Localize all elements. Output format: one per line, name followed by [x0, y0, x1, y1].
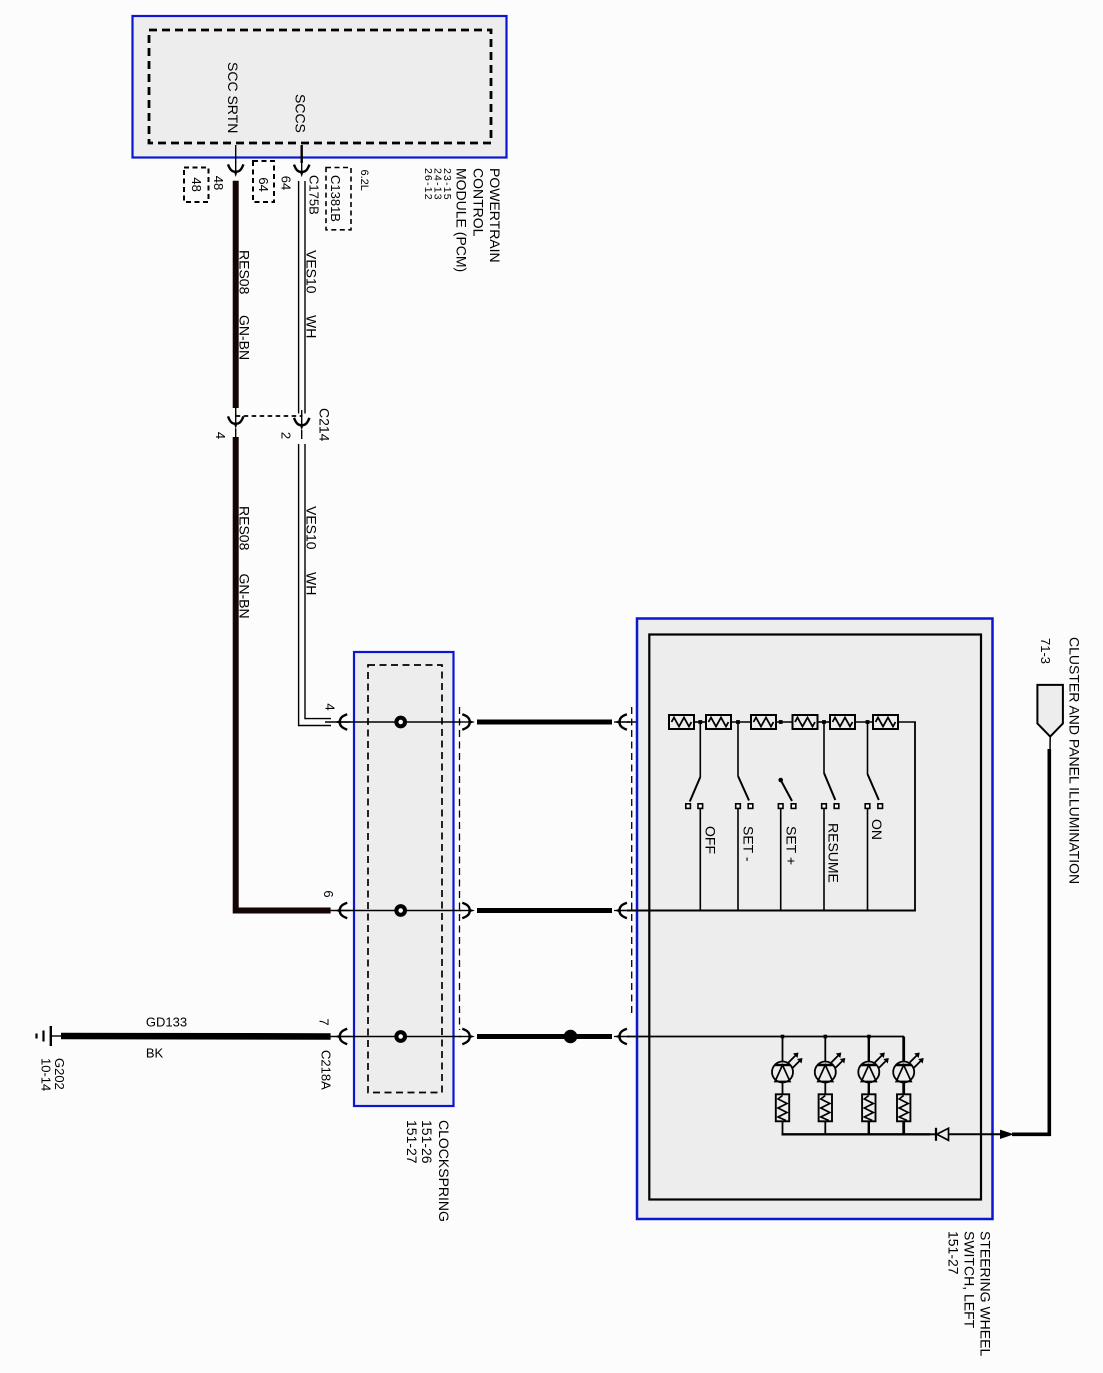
svg-text:BK: BK [146, 1046, 164, 1061]
svg-text:RESUME: RESUME [825, 823, 841, 883]
harness dashed line right [631, 707, 633, 1013]
clockspring pin 6 terminal circle [396, 906, 405, 915]
clockspring pin 7 terminal circle [396, 1032, 405, 1041]
switch OFF [686, 722, 719, 911]
LED resistor R9 [862, 1094, 875, 1134]
resistor R3 [751, 715, 776, 729]
harness dashed line left [459, 707, 461, 1030]
svg-text:SET +: SET + [783, 826, 799, 865]
svg-text:POWERTRAIN: POWERTRAIN [487, 168, 503, 263]
svg-text:CLUSTER AND PANEL ILLUMINATION: CLUSTER AND PANEL ILLUMINATION [1066, 637, 1082, 884]
steering wheel switch box [637, 619, 993, 1220]
LED resistor R10 [897, 1094, 910, 1134]
svg-text:48: 48 [211, 176, 226, 190]
pin 64 connector stem and bow at PCM [294, 145, 309, 177]
LED resistor R7 [776, 1094, 789, 1134]
switch SET- [736, 722, 757, 911]
resistor ladder wire row [694, 720, 916, 724]
svg-text:151-27: 151-27 [404, 1120, 420, 1164]
resistor R6 [873, 715, 898, 729]
PCM module box (POWERTRAIN CONTROL MODULE) [133, 16, 507, 158]
connector label C175B [307, 175, 322, 215]
svg-text:STEERING WHEEL: STEERING WHEEL [978, 1231, 994, 1356]
C214 pin 2 bow [278, 410, 309, 439]
svg-text:SCCS: SCCS [293, 94, 309, 133]
svg-text:151-27: 151-27 [946, 1231, 962, 1275]
connector label C218A [319, 1050, 334, 1090]
svg-text:C1381B: C1381B [328, 175, 343, 222]
pin 48 connector stem and bow at PCM [228, 145, 243, 177]
PCM pin label SCCS [293, 94, 309, 133]
C214 pin 4 bow [213, 408, 244, 439]
svg-text:SCC SRTN: SCC SRTN [225, 62, 241, 133]
svg-text:GD133: GD133 [146, 1015, 187, 1030]
svg-text:C175B: C175B [307, 175, 322, 215]
svg-text:71-3: 71-3 [1038, 638, 1053, 664]
svg-text:RES08: RES08 [237, 250, 253, 295]
wire RES08 GN-BN lower segment (thick, to clockspring pin 6) [236, 437, 331, 911]
svg-text:C218A: C218A [319, 1050, 334, 1090]
switch ON [865, 722, 885, 911]
dashed alternate pin box 64 [253, 161, 274, 202]
switch RESUME [822, 722, 842, 911]
off-page connector pentagon (cluster illumination) [1037, 685, 1063, 737]
wire VES10 WH lower segment (double line, to clockspring pin 4) [299, 444, 331, 726]
bow out of clockspring pin 7 (right-pointing) [459, 1029, 475, 1044]
clockspring box [354, 652, 454, 1106]
svg-text:SWITCH, LEFT: SWITCH, LEFT [962, 1231, 978, 1329]
harness wire pin6 thick segment [477, 908, 612, 913]
in-line connector C214 dashed link [236, 415, 302, 417]
svg-text:ON: ON [869, 819, 885, 840]
svg-text:VES10: VES10 [304, 250, 320, 294]
svg-text:C214: C214 [317, 408, 333, 442]
svg-text:7: 7 [316, 1018, 331, 1025]
LED resistor R8 [819, 1094, 832, 1134]
svg-text:SET -: SET - [740, 826, 756, 862]
svg-text:RES08: RES08 [237, 506, 253, 551]
bow into switch box pin7 wire (left-pointing) [614, 1029, 630, 1044]
svg-text:48: 48 [189, 177, 204, 191]
wire GD133 BK (ground wire to clockspring pin 7) [51, 1015, 331, 1061]
LED D3 [858, 1037, 889, 1095]
bow into switch box pin4 wire (left-pointing) [614, 714, 669, 729]
PCM designation text POWERTRAIN CONTROL MODULE (PCM) 23-15 24-13 26-12 [422, 168, 503, 272]
diode CR1 [930, 1128, 949, 1141]
LED D4 [893, 1037, 924, 1095]
resistor R2 [706, 715, 731, 729]
wire pin7 through clockspring [316, 1018, 461, 1036]
engine label 6.2L [358, 170, 370, 191]
pin number 48 [211, 176, 226, 190]
pin number 64 [278, 176, 293, 190]
svg-text:MODULE (PCM): MODULE (PCM) [454, 168, 470, 272]
svg-text:VES10: VES10 [304, 506, 320, 550]
dashed connector box C1381B [326, 168, 351, 230]
connector label C214 [317, 408, 333, 442]
harness wire pin7 thick segment with splice dot [477, 1030, 612, 1044]
svg-text:6.2L: 6.2L [358, 170, 370, 191]
svg-text:64: 64 [256, 177, 271, 191]
clockspring pin 4 terminal circle [396, 718, 405, 727]
bow out of clockspring pin 4 (right-pointing) [459, 714, 475, 729]
LED bottom bus [782, 1133, 931, 1135]
svg-text:4: 4 [322, 703, 337, 710]
bow out of clockspring pin 6 (right-pointing) [459, 903, 475, 918]
svg-text:10-14: 10-14 [39, 1058, 54, 1091]
svg-text:6: 6 [321, 890, 336, 897]
wire VES10 WH upper segment (double line) [299, 181, 320, 414]
caption CLUSTER AND PANEL ILLUMINATION [1038, 637, 1083, 884]
svg-text:151-26: 151-26 [419, 1120, 435, 1164]
svg-text:CLOCKSPRING: CLOCKSPRING [436, 1120, 452, 1222]
LED D2 [815, 1037, 846, 1095]
resistor R4 [793, 715, 818, 729]
resistor R5 [830, 715, 855, 729]
svg-text:CONTROL: CONTROL [470, 168, 486, 237]
svg-text:64: 64 [278, 176, 293, 190]
svg-text:OFF: OFF [702, 826, 718, 854]
wire from diode to illumination feed [949, 737, 1051, 1139]
switch common bus (pin 6 wire inside box) [627, 910, 916, 912]
clockspring caption CLOCKSPRING 151-26 151-27 [404, 1120, 452, 1222]
PCM pin label SCC SRTN [225, 62, 241, 133]
harness wire pin4 thick segment [477, 720, 612, 725]
wire RES08 GN-BN upper segment (thick) [236, 181, 253, 408]
svg-text:GN-BN: GN-BN [237, 315, 253, 360]
wire pin6 through clockspring [321, 890, 461, 910]
svg-text:GN-BN: GN-BN [237, 574, 253, 619]
illumination bus (pin 7 wire inside box) [627, 1035, 904, 1039]
dashed alternate pin box 48 [184, 168, 209, 203]
wire pin4 through clockspring [322, 703, 461, 722]
bow into switch box pin6 wire (left-pointing) [614, 903, 630, 918]
ground G202 symbol [37, 1026, 67, 1091]
LED D1 [772, 1037, 803, 1095]
switch SET+ [778, 778, 799, 911]
svg-text:4: 4 [213, 432, 228, 439]
switch box caption STEERING WHEEL SWITCH, LEFT 151-27 [946, 1231, 994, 1356]
right ladder return wire [914, 722, 916, 911]
svg-text:WH: WH [304, 315, 320, 338]
svg-text:WH: WH [304, 572, 320, 595]
bow into clockspring pin 6 (left-pointing) [335, 903, 351, 918]
svg-text:2: 2 [278, 432, 293, 439]
resistor R1 [669, 715, 694, 729]
svg-text:26-12: 26-12 [422, 168, 434, 201]
bow into clockspring pin 7 (left-pointing) [335, 1029, 351, 1044]
bow into clockspring pin 4 (left-pointing) [335, 714, 351, 729]
